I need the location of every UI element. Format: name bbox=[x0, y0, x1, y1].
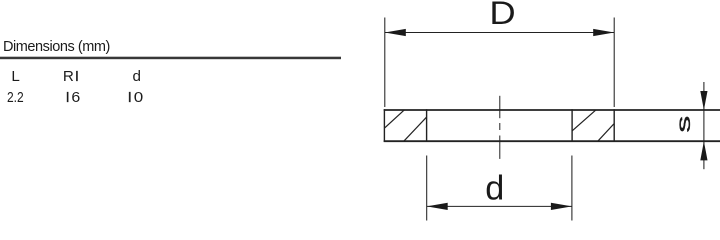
svg-text:s: s bbox=[673, 116, 694, 133]
svg-text:d: d bbox=[485, 170, 504, 208]
svg-text:D: D bbox=[489, 0, 515, 31]
